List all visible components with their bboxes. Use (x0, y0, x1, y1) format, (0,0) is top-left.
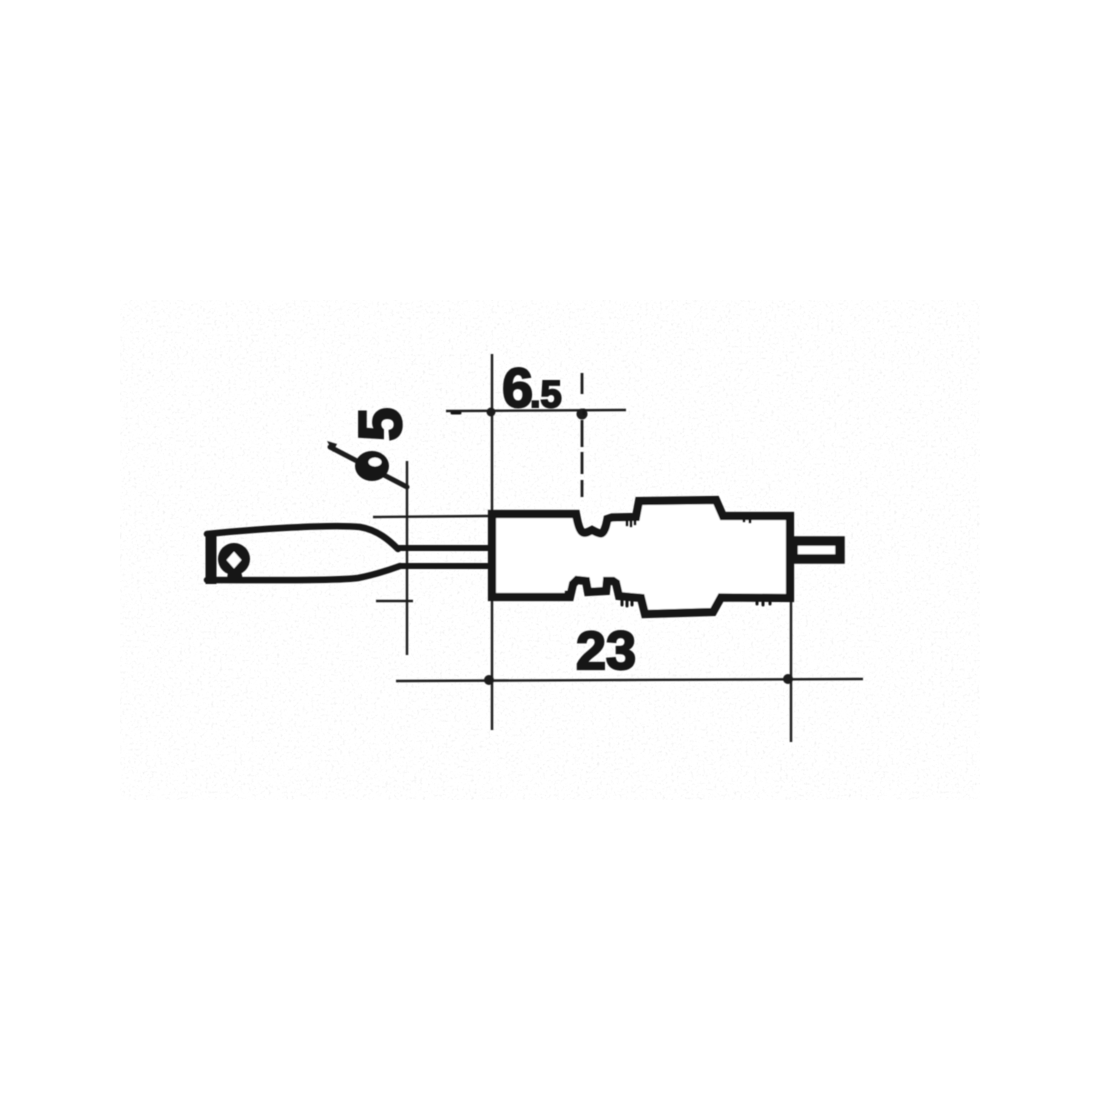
svg-text:6: 6 (502, 356, 533, 419)
lug hole outer (218, 543, 250, 575)
terminal lug left edge (206, 531, 217, 584)
dimension line 23 (396, 679, 863, 681)
dim dot at 489/680 (484, 675, 494, 685)
terminal lug bottom edge (207, 566, 400, 580)
terminal lug top edge (207, 526, 398, 549)
svg-text:5: 5 (347, 408, 414, 441)
right stub (793, 541, 840, 559)
pin lower line (400, 563, 492, 569)
extension line at x=582 (dashed) (581, 373, 584, 497)
edge nubs (sketch roughness) (452, 410, 770, 606)
diameter bottom tick y=601 (376, 600, 413, 603)
dim tick at 492/411 (487, 408, 496, 417)
lug hole inner diamond (227, 552, 242, 569)
extension line at x=791 (right datum) (790, 600, 792, 742)
svg-text:.5: .5 (530, 374, 562, 416)
dimension line 6.5 (446, 410, 626, 411)
valve body outline (492, 500, 790, 614)
svg-text:23: 23 (576, 621, 636, 681)
lug hole to edge join (227, 571, 243, 580)
diameter extension line at x=407 (406, 461, 408, 655)
pin upper line (397, 545, 492, 551)
leader line of diameter label (330, 447, 407, 487)
diameter top tick line y=517 (373, 516, 488, 517)
dim tick at 582/412 (577, 409, 588, 420)
diameter symbol circle (355, 451, 389, 481)
dim dot at 788/679 (783, 674, 793, 684)
extension line at x=492 (left datum) (491, 354, 493, 730)
